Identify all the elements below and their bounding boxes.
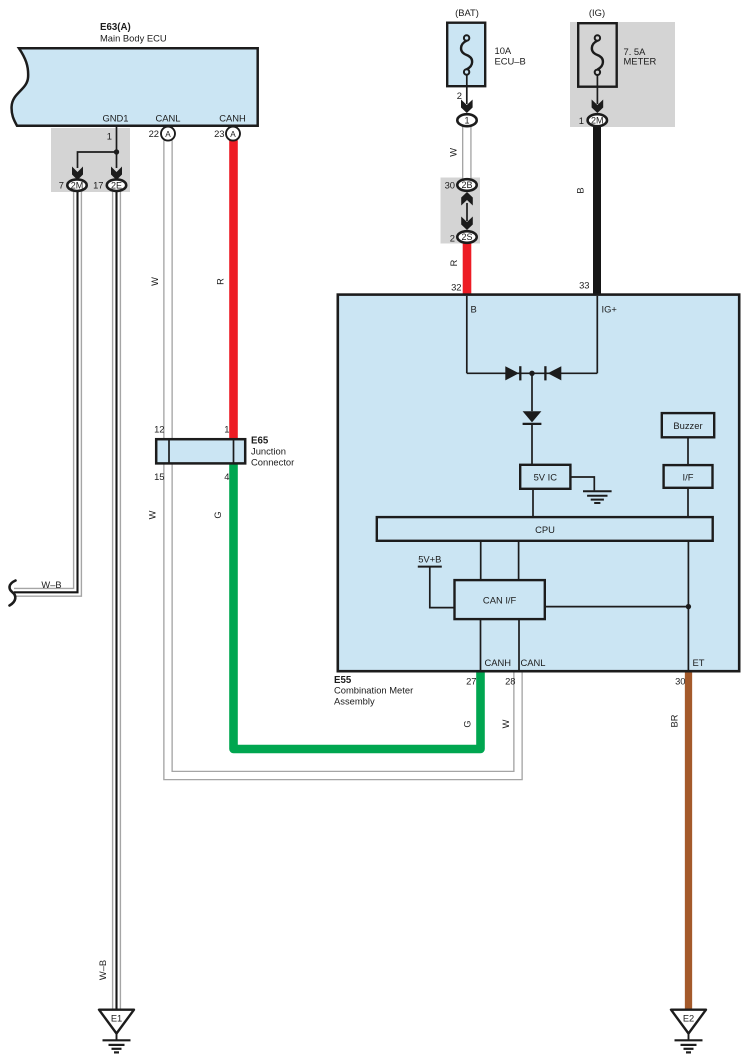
svg-text:W: W [147,510,157,519]
wire B internal [466,296,468,373]
wire I/F to CPU [687,488,689,517]
wire fuse BAT to arrow [466,75,468,104]
wire dot to diode D3 [531,373,533,411]
svg-text:2S: 2S [461,232,472,242]
svg-text:2M: 2M [71,180,84,190]
svg-text:4: 4 [224,471,229,482]
internal ground symbol [583,491,612,503]
svg-text:7: 7 [59,179,64,190]
junction dot GND1 [114,149,119,154]
E65 divider left [168,439,170,463]
svg-text:1: 1 [107,131,112,142]
svg-text:22: 22 [149,128,159,139]
svg-text:BR: BR [669,714,679,727]
svg-text:ET: ET [693,657,705,668]
label 10A ECU-B [495,45,526,67]
wire CAN I/F to ET node [545,606,689,608]
combination meter E55 box [338,295,739,672]
svg-text:(BAT): (BAT) [455,7,479,18]
shield gray block under GND1 connectors [51,128,130,192]
interface I/F box [664,465,713,488]
wire fuse IG to arrow [596,75,598,104]
svg-text:Buzzer: Buzzer [673,420,702,431]
svg-text:IG+: IG+ [602,304,618,315]
wire buzzer to I/F [687,437,689,465]
wire R 2S to E55 pin32 [463,243,472,295]
wire 5V IC to internal ground [572,477,595,490]
wire B 2M to E55 pin33 [593,126,601,295]
svg-text:G: G [213,511,223,518]
svg-text:Assembly: Assembly [334,695,375,706]
svg-text:17: 17 [93,179,103,190]
wire BR E55 pin30 ET to ground E2 [685,671,692,1010]
arrow up from 2B [461,192,473,206]
connector oval 1 [457,114,476,126]
svg-text:Main Body ECU: Main Body ECU [100,33,167,44]
svg-text:CANH: CANH [485,657,512,668]
svg-text:2E: 2E [111,180,122,190]
arrow into oval 1 [461,100,473,114]
wire GND1 pin1 branch [78,127,117,168]
wire R CANH pin23 to E65 pin1 [229,140,238,440]
CPU box [377,517,713,541]
wire W CANL pin22 to E65 pin12 [163,140,173,440]
svg-text:E63(A): E63(A) [100,22,131,33]
wire 5V IC to CPU [532,489,534,517]
svg-text:W–B: W–B [41,580,61,590]
svg-text:B: B [471,304,477,315]
arrow into 2M [592,100,604,114]
shield gray block 2B/2S chain [441,178,481,244]
svg-text:GND1: GND1 [102,113,128,124]
buzzer box [662,413,714,437]
wire W-B from 2E to ground E1 [112,192,121,1011]
svg-text:W–B: W–B [98,960,108,980]
wire W E65 pin15 to E55 pin28 CANL [168,464,518,776]
connector oval 2S [457,231,476,243]
svg-text:R: R [215,278,225,285]
wire CAN I/F to CANL pin [518,619,520,670]
svg-text:(IG): (IG) [589,7,605,18]
svg-text:METER: METER [624,55,657,66]
svg-text:W: W [449,148,459,157]
ground E1 [99,1010,134,1053]
svg-text:Connector: Connector [251,456,294,467]
svg-text:ECU–B: ECU–B [495,56,526,67]
svg-text:CANL: CANL [521,657,546,668]
svg-text:R: R [449,259,459,266]
diode D2 right [545,366,561,380]
wire W-B from 2M to break symbol [14,192,78,593]
junction dot ET [686,604,691,609]
svg-text:5V+B: 5V+B [418,554,441,565]
svg-text:2M: 2M [591,116,604,126]
svg-text:E1: E1 [111,1014,122,1024]
connector circle A at pin 23 [226,127,240,141]
svg-text:32: 32 [451,282,461,293]
junction connector E65 box [156,439,245,463]
arrow into 2M [72,167,83,181]
svg-text:W: W [501,719,511,728]
svg-text:CAN I/F: CAN I/F [483,595,517,606]
svg-text:10A: 10A [495,45,512,56]
connector circle A at pin 22 [161,127,175,141]
svg-text:I/F: I/F [683,471,694,482]
wire between arrows [466,203,468,221]
ECU E63 box Main Body ECU [12,48,258,125]
svg-text:2: 2 [457,90,462,101]
wire CPU to CAN I/F right [518,541,520,580]
svg-text:CPU: CPU [535,524,555,535]
svg-text:2B: 2B [461,180,472,190]
svg-text:23: 23 [214,128,224,139]
connector oval 2M right [588,114,607,126]
svg-text:1: 1 [579,115,584,126]
connector oval 2E [107,179,126,191]
wire W fuse oval1 to 2B [462,127,472,180]
ground E2 [671,1010,706,1053]
svg-text:1: 1 [224,424,229,435]
svg-text:A: A [230,130,236,139]
svg-text:27: 27 [466,676,476,687]
regulator 5V IC box [520,465,570,489]
connector oval 2B [457,179,476,191]
svg-text:33: 33 [579,280,589,291]
wire IG+ internal [596,296,598,373]
svg-text:A: A [165,130,171,139]
E65 divider right [233,439,235,463]
fuse symbol IG [592,35,603,75]
svg-text:15: 15 [154,471,164,482]
wire CAN I/F to CANH pin [480,619,482,670]
label 7.5A METER [624,46,657,66]
svg-text:Junction: Junction [251,446,286,457]
wire CPU to ET pin [687,541,689,670]
shield gray block IG fuse [570,22,675,127]
fuse box IG [578,23,617,86]
svg-text:30: 30 [675,676,685,687]
svg-text:28: 28 [505,676,515,687]
connector oval 2M left [67,179,86,191]
svg-text:30: 30 [445,179,455,190]
svg-text:E2: E2 [683,1014,694,1024]
svg-text:5V IC: 5V IC [534,472,558,483]
svg-text:W: W [150,277,160,286]
break symbol squiggle [10,581,16,606]
fuse symbol BAT [461,35,472,74]
junction dot diodes [529,371,534,376]
wire diode D3 to 5V IC [531,425,533,464]
wire CPU to CAN I/F left [480,541,482,580]
wire G E65 pin4 to E55 pin27 CANH [234,463,481,749]
svg-text:1: 1 [464,116,469,126]
svg-text:12: 12 [154,424,164,435]
arrow down into 2S [461,217,473,231]
arrow into 2E [111,167,122,181]
svg-text:Combination Meter: Combination Meter [334,685,413,696]
svg-text:B: B [576,187,586,193]
wire diode row horizontal [467,372,598,374]
svg-text:G: G [463,720,473,727]
svg-text:2: 2 [450,233,455,244]
svg-text:CANH: CANH [219,113,246,124]
fuse box BAT [447,23,485,86]
CAN I/F box [455,580,545,619]
svg-text:CANL: CANL [155,113,180,124]
5V+B supply bar and wire [418,567,455,608]
diode D1 left [505,366,520,380]
diode D3 down [523,411,542,424]
